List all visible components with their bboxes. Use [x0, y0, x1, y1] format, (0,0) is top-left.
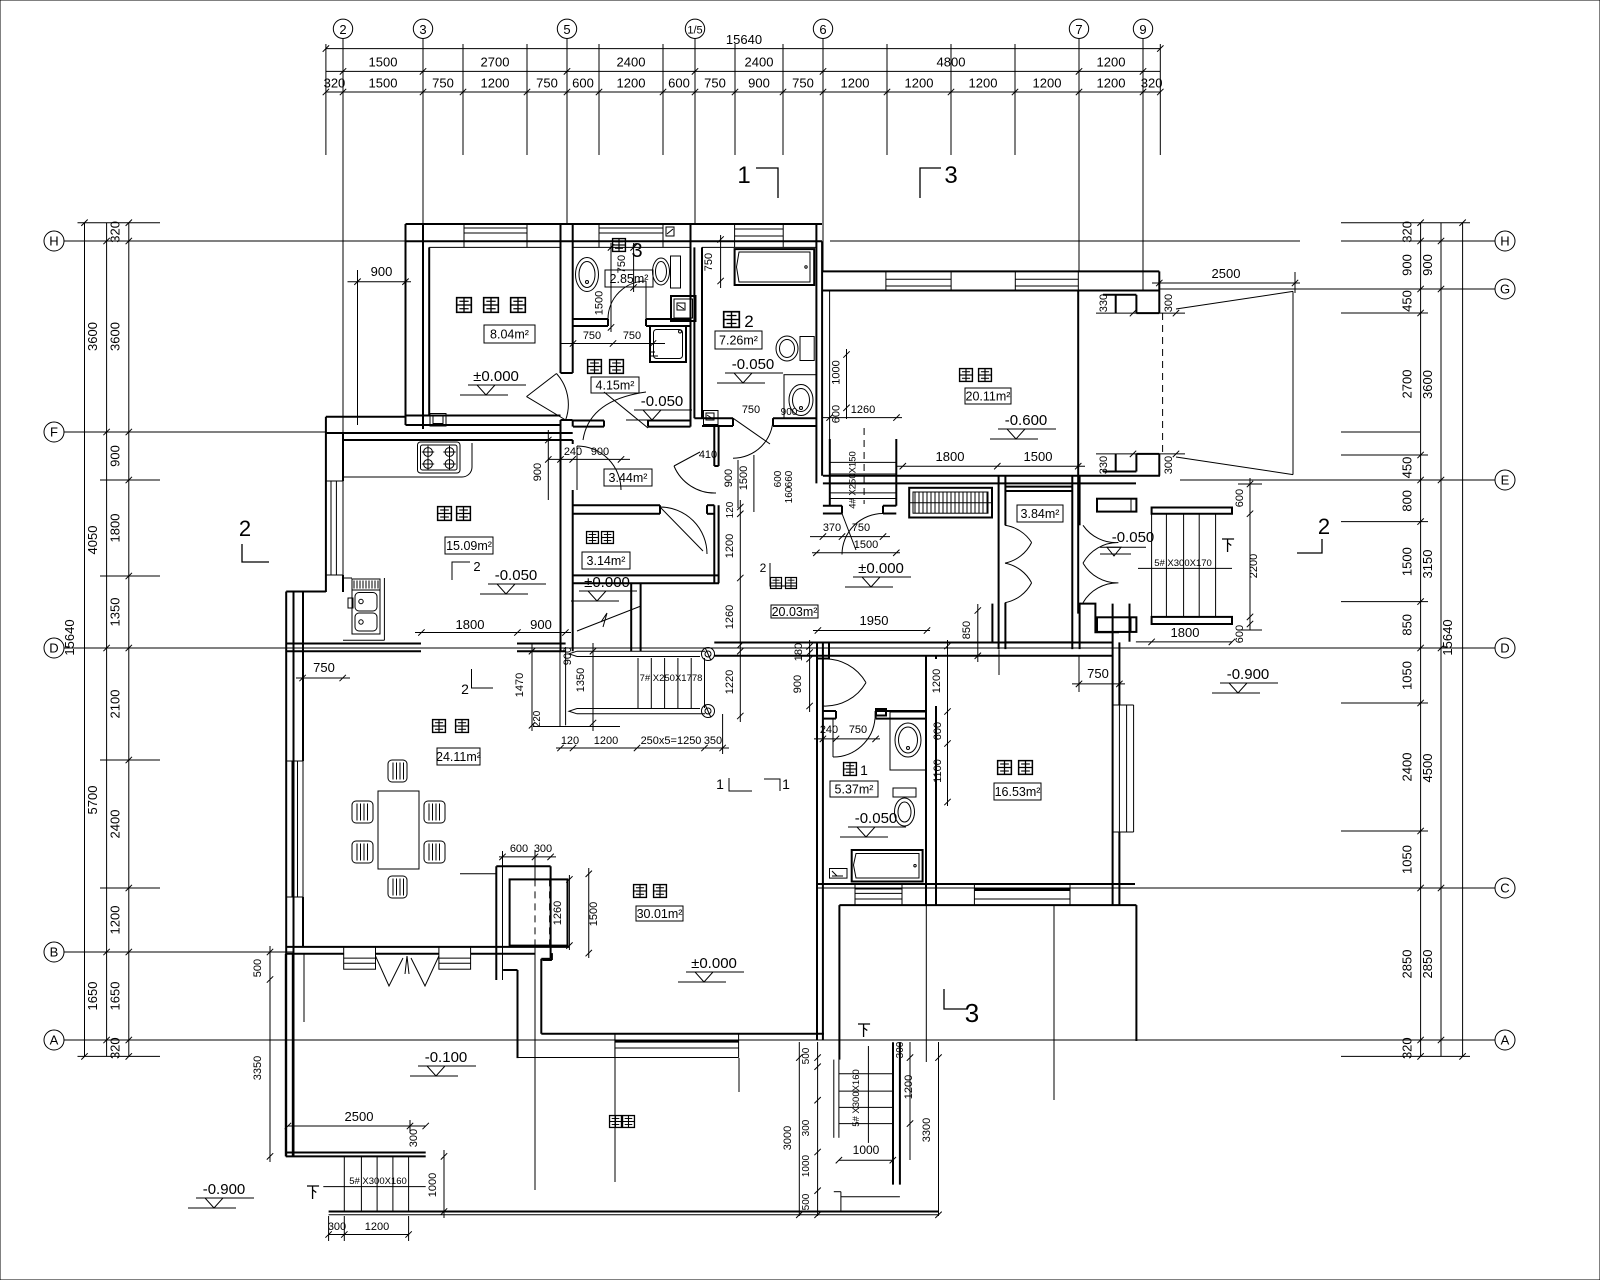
area label 15.09m&#178;	[445, 537, 493, 554]
svg-text:3300: 3300	[921, 1118, 933, 1142]
bath1 bathtub	[852, 850, 923, 882]
closet east wall	[1071, 476, 1073, 649]
svg-text:30.01m²: 30.01m²	[637, 907, 683, 921]
chair east 1	[424, 801, 445, 823]
bath1 north wall with door	[823, 710, 836, 712]
storage south wall	[573, 574, 719, 576]
svg-text:2850: 2850	[1400, 950, 1415, 979]
svg-text:3: 3	[631, 240, 642, 262]
svg-text:2700: 2700	[481, 55, 510, 70]
svg-text:300: 300	[328, 1221, 346, 1233]
dimension 500 3350 terrace west	[269, 946, 271, 1162]
bath2 west wall	[693, 247, 695, 418]
svg-text:1000: 1000	[801, 1154, 812, 1177]
svg-text:5# X300X160: 5# X300X160	[851, 1069, 862, 1127]
dimension 750 bedroom NE	[1072, 683, 1125, 685]
dimension chain major left	[106, 223, 108, 1057]
svg-text:H: H	[1500, 234, 1509, 249]
kitchen west wall outer	[325, 417, 327, 592]
dining table	[378, 791, 419, 869]
svg-text:300: 300	[801, 1119, 812, 1136]
SE steps side walls	[892, 1042, 894, 1184]
svg-text:B: B	[50, 945, 59, 960]
svg-text:3.44m²: 3.44m²	[609, 471, 648, 485]
svg-text:1200: 1200	[594, 735, 618, 747]
grid bubble axis A right	[1495, 1030, 1515, 1050]
room label bath2	[724, 312, 740, 328]
room label dining	[433, 720, 446, 733]
living east wall	[816, 905, 818, 1040]
svg-text:600: 600	[831, 405, 843, 423]
dimension 330 300 bottom	[1096, 453, 1185, 455]
window dining south 2	[439, 947, 471, 969]
closet north wall	[1005, 486, 1072, 488]
wall jog servant to kitchen	[326, 416, 406, 418]
svg-text:-0.050: -0.050	[495, 567, 538, 584]
svg-text:C: C	[1500, 881, 1509, 896]
down label terrace steps	[307, 1186, 319, 1199]
extension line mid terrace	[534, 1040, 536, 1190]
svg-text:7.26m²: 7.26m²	[719, 334, 758, 348]
room label kitchen	[438, 507, 452, 521]
dimension 900 servant top	[348, 281, 412, 283]
svg-text:600: 600	[1234, 625, 1246, 643]
svg-text:2700: 2700	[1400, 370, 1415, 399]
bath2 bathtub	[735, 249, 815, 285]
axis 7 vertical	[1078, 48, 1080, 271]
svg-text:F: F	[50, 425, 58, 440]
svg-text:750: 750	[742, 404, 760, 416]
svg-text:2: 2	[744, 312, 753, 331]
dimension 1950 foyer	[813, 630, 930, 632]
svg-text:240: 240	[820, 724, 838, 736]
svg-text:2500: 2500	[1212, 266, 1241, 281]
porch east edge	[1135, 905, 1137, 1041]
dimension chain SE right 300 1200 3300	[909, 1042, 911, 1160]
svg-text:900: 900	[562, 647, 574, 665]
svg-text:1000: 1000	[427, 1173, 439, 1197]
door housekeeping	[583, 392, 646, 440]
svg-text:1500: 1500	[1400, 547, 1415, 576]
dimension 1800 east stair	[1136, 641, 1232, 643]
svg-text:1200: 1200	[841, 76, 870, 91]
svg-text:1260: 1260	[724, 605, 736, 629]
svg-text:±0.000: ±0.000	[691, 955, 737, 972]
svg-text:450: 450	[1400, 457, 1415, 479]
living south window slider	[615, 1040, 739, 1043]
area label 4.15m&#178;	[591, 377, 639, 393]
svg-text:750: 750	[313, 660, 335, 675]
svg-text:2: 2	[473, 559, 480, 574]
garage west wall	[815, 224, 817, 483]
window garage north 2	[1015, 278, 1078, 280]
entry door	[842, 514, 883, 555]
svg-text:4# X250X150: 4# X250X150	[848, 451, 859, 509]
bath2 toilet	[800, 337, 814, 361]
dimension 1000 SE steps	[839, 1159, 893, 1161]
dimension 15640 overall top	[326, 48, 1160, 50]
svg-text:160: 160	[784, 486, 795, 503]
svg-text:E: E	[1501, 473, 1510, 488]
door storage	[660, 507, 707, 554]
area label 20.03m&#178;	[771, 605, 818, 618]
svg-text:1: 1	[716, 776, 724, 792]
svg-text:2400: 2400	[1400, 753, 1415, 782]
bath1 toilet	[893, 788, 916, 797]
svg-text:220: 220	[532, 710, 543, 727]
dimension chain foyer west 120 1200 1260 1220	[739, 500, 741, 722]
porch east wall stub top	[1097, 499, 1136, 512]
room label servant	[457, 298, 472, 313]
svg-text:2400: 2400	[108, 810, 123, 839]
svg-text:2: 2	[760, 561, 767, 575]
svg-text:8.04m²: 8.04m²	[490, 328, 529, 342]
extension lines right	[1341, 222, 1470, 224]
corridor east wall	[713, 427, 715, 466]
svg-text:2: 2	[239, 516, 251, 541]
svg-text:1650: 1650	[85, 982, 100, 1011]
dimension 1500 750 servant east	[610, 243, 612, 332]
dimension 15640 overall right	[1462, 223, 1464, 1057]
svg-text:600: 600	[668, 76, 690, 91]
porch east wall stub bottom	[1097, 617, 1136, 632]
svg-text:180: 180	[793, 643, 805, 661]
grid line H	[64, 240, 406, 242]
svg-text:1200: 1200	[903, 1075, 915, 1099]
dimension 750 bath2	[720, 235, 722, 288]
extension lines left	[78, 222, 161, 224]
terrace steps	[343, 1156, 345, 1211]
svg-text:15640: 15640	[726, 32, 762, 47]
bath1 basin counter	[890, 712, 926, 770]
chair west 1	[352, 801, 373, 823]
svg-text:450: 450	[1400, 290, 1415, 312]
D wall nook segment	[517, 643, 566, 645]
svg-text:±0.000: ±0.000	[473, 368, 519, 385]
area label 20.11m&#178;	[965, 388, 1011, 404]
dimension chain SE left 500 300 1000 500 3000	[798, 1042, 800, 1216]
garage north wall	[823, 270, 1159, 272]
dimension 850 closet	[977, 604, 979, 662]
closet double doors pointed	[1005, 525, 1032, 563]
grid line D	[64, 647, 1470, 649]
svg-text:1500: 1500	[854, 539, 878, 551]
svg-text:500: 500	[801, 1047, 812, 1064]
svg-text:2200: 2200	[1248, 554, 1260, 578]
svg-text:±0.000: ±0.000	[858, 560, 904, 577]
svg-text:1500: 1500	[594, 291, 606, 315]
svg-text:1200: 1200	[931, 669, 943, 693]
svg-text:1200: 1200	[617, 76, 646, 91]
bath3 south wall with door opening	[573, 318, 608, 320]
svg-text:120: 120	[561, 735, 579, 747]
SE steps center line	[867, 1046, 869, 1143]
svg-text:1220: 1220	[724, 670, 736, 694]
chair north	[388, 760, 407, 782]
svg-text:6: 6	[819, 22, 826, 37]
east stair bottom platform	[1152, 617, 1232, 624]
grid bubble axis C right	[1495, 878, 1515, 898]
window bedroom south	[974, 888, 1070, 891]
heater box servant room	[430, 414, 446, 427]
kitchen east wall	[560, 440, 562, 651]
promenade edge	[329, 1211, 939, 1213]
svg-text:1050: 1050	[1400, 845, 1415, 874]
window kitchen west	[330, 481, 332, 575]
svg-text:850: 850	[1400, 614, 1415, 636]
grid bubble axis B left	[44, 942, 64, 962]
svg-text:300: 300	[1163, 456, 1175, 474]
svg-text:350: 350	[704, 735, 722, 747]
stair well west wall	[630, 583, 632, 651]
svg-text:1200: 1200	[365, 1221, 389, 1233]
svg-text:660: 660	[784, 470, 795, 487]
svg-text:600: 600	[1234, 489, 1246, 507]
vent flag bath3 north	[666, 227, 674, 236]
dimension 300 1200 steps bottom	[329, 1234, 409, 1236]
hall door double arc	[823, 659, 866, 706]
washing machine housekeeping	[650, 326, 686, 362]
svg-text:5.37m²: 5.37m²	[835, 783, 874, 797]
storage east wall	[713, 505, 715, 583]
svg-text:-0.600: -0.600	[1005, 412, 1048, 429]
kitchen counter edge	[343, 443, 472, 477]
terrace west wall	[285, 954, 287, 1157]
svg-text:2: 2	[1318, 514, 1330, 539]
french door dining south	[376, 956, 439, 986]
grid bubble axis 5	[566, 39, 568, 49]
svg-text:15640: 15640	[1440, 619, 1455, 655]
extension line divider	[502, 851, 504, 980]
window servant room north	[464, 227, 527, 229]
svg-text:750: 750	[432, 76, 454, 91]
axis 3 vertical	[422, 48, 424, 224]
extension lines top	[325, 44, 327, 155]
svg-text:20.03m²: 20.03m²	[772, 605, 818, 619]
area label 3.14m&#178;	[582, 552, 630, 569]
bath3 basin	[576, 258, 599, 292]
room label bedroom	[998, 761, 1012, 775]
dimension 370 750 1500 entry	[810, 536, 890, 538]
dimension 1470 220 dining nook	[531, 643, 533, 731]
svg-text:900: 900	[781, 407, 798, 418]
closet south wall	[1005, 641, 1072, 643]
svg-text:750: 750	[1087, 666, 1109, 681]
basement stair break line dashed	[863, 428, 865, 504]
svg-text:900: 900	[723, 469, 735, 487]
area label 24.11m&#178;	[437, 748, 480, 765]
svg-text:1200: 1200	[1097, 55, 1126, 70]
svg-text:9: 9	[1139, 22, 1146, 37]
svg-text:1800: 1800	[936, 449, 965, 464]
east stair mid line	[1138, 567, 1232, 569]
D wall foyer south	[714, 642, 1112, 644]
svg-text:750: 750	[792, 76, 814, 91]
terrace south edge	[286, 1152, 426, 1154]
svg-text:750: 750	[849, 724, 867, 736]
dimension 2500 driveway	[1152, 282, 1300, 284]
svg-text:3600: 3600	[85, 322, 100, 351]
area label 5.37m&#178;	[830, 781, 878, 797]
svg-text:330: 330	[1098, 456, 1110, 474]
svg-text:900: 900	[371, 264, 393, 279]
wall jog kitchen-dining west	[286, 591, 326, 593]
chair west 2	[352, 841, 373, 863]
svg-text:600: 600	[572, 76, 594, 91]
SE steps treads	[839, 1073, 893, 1075]
east stair top platform	[1152, 508, 1232, 514]
hall west wall	[816, 643, 818, 906]
grid bubble axis 2	[342, 39, 344, 49]
svg-text:750: 750	[623, 330, 641, 342]
room label terrace	[610, 1116, 622, 1128]
svg-text:330: 330	[1098, 294, 1110, 312]
room label storage	[587, 532, 599, 544]
svg-text:2500: 2500	[345, 1109, 374, 1124]
svg-text:1000: 1000	[831, 360, 843, 384]
chair east 2	[424, 841, 445, 863]
svg-text:A: A	[50, 1033, 59, 1048]
grid bubble axis 9	[1142, 39, 1144, 49]
svg-text:5# X300X160: 5# X300X160	[349, 1176, 407, 1187]
bath1 floor drain	[830, 869, 848, 879]
svg-text:900: 900	[108, 445, 123, 467]
svg-text:250x5=1250: 250x5=1250	[641, 735, 702, 747]
axis 6 vertical	[822, 48, 824, 271]
svg-text:D: D	[49, 641, 58, 656]
grid bubble axis 3	[422, 39, 424, 49]
svg-text:900: 900	[530, 617, 552, 632]
dimension 1000 terrace steps	[443, 1150, 445, 1218]
svg-text:850: 850	[961, 621, 973, 639]
area label 3.84m&#178;	[1017, 505, 1063, 522]
garage-porch divider wall	[1077, 291, 1079, 614]
svg-text:300: 300	[895, 1041, 906, 1058]
porch south jog wall	[1080, 604, 1119, 633]
door bath3	[608, 281, 646, 319]
svg-text:1500: 1500	[369, 55, 398, 70]
grid line C	[817, 887, 1470, 889]
svg-text:16.53m²: 16.53m²	[995, 785, 1041, 799]
svg-text:3.84m²: 3.84m²	[1021, 507, 1060, 521]
garage door notch bottom	[1103, 471, 1136, 473]
garage east wall upper	[1158, 271, 1160, 313]
servant room south wall	[406, 415, 561, 417]
dimension 120 1200 250x5 350 stair bottom	[556, 747, 729, 749]
dimension 240 750 bath1 door	[814, 738, 880, 740]
entry steps grille	[909, 488, 992, 518]
foyer north wall	[823, 475, 1160, 477]
svg-text:320: 320	[108, 221, 123, 243]
dimension 600 300 divider	[499, 856, 556, 858]
svg-text:1200: 1200	[481, 76, 510, 91]
svg-text:20.11m²: 20.11m²	[966, 390, 1011, 404]
bath2 floor drain	[704, 411, 719, 425]
svg-text:-0.050: -0.050	[855, 810, 898, 827]
bath2 interior top face	[702, 246, 816, 248]
dining west wall	[285, 592, 287, 1157]
svg-text:1500: 1500	[588, 902, 600, 926]
svg-text:4500: 4500	[1420, 754, 1435, 783]
svg-text:1350: 1350	[575, 668, 587, 692]
svg-text:320: 320	[1141, 76, 1163, 91]
kitchen sink double bowl	[352, 579, 380, 634]
living south wall	[541, 1033, 824, 1035]
dimension row fine top	[326, 91, 1160, 93]
grid bubble axis G right	[1495, 279, 1515, 299]
svg-text:±0.000: ±0.000	[584, 574, 630, 591]
garage inner west face	[829, 291, 831, 467]
svg-text:1800: 1800	[108, 514, 123, 543]
bedroom west wall	[925, 656, 927, 905]
svg-text:3350: 3350	[252, 1056, 264, 1080]
svg-text:A: A	[1501, 1033, 1510, 1048]
axis 9 vertical	[1142, 48, 1144, 290]
svg-text:7: 7	[1075, 22, 1082, 37]
svg-text:1470: 1470	[514, 673, 526, 697]
svg-text:1/5: 1/5	[687, 25, 702, 37]
grid line G	[1160, 288, 1470, 290]
svg-text:G: G	[1500, 282, 1510, 297]
svg-text:410: 410	[699, 449, 717, 461]
svg-text:900: 900	[748, 76, 770, 91]
down label SE steps	[858, 1024, 870, 1037]
dimension row major top	[326, 70, 1160, 72]
dimension 1000 600 1260 garage west	[846, 349, 848, 419]
svg-text:2.85m²: 2.85m²	[610, 272, 649, 286]
svg-text:D: D	[1500, 641, 1509, 656]
east stair treads	[1151, 514, 1153, 617]
corridor-storage wall with door	[573, 504, 660, 506]
svg-text:2: 2	[339, 22, 346, 37]
svg-text:1200: 1200	[905, 76, 934, 91]
svg-text:320: 320	[108, 1037, 123, 1059]
bath1 basin	[895, 723, 921, 757]
svg-text:3: 3	[965, 998, 979, 1028]
room label housekeeping	[588, 360, 602, 374]
garage door leaf dashed	[1162, 313, 1164, 455]
svg-text:750: 750	[536, 76, 558, 91]
extension line bedroom NW	[998, 650, 1000, 676]
svg-text:3: 3	[944, 162, 957, 189]
living west jog wall	[517, 970, 519, 1058]
basement stair east wall	[895, 439, 897, 506]
svg-text:1260: 1260	[851, 404, 875, 416]
grid line A	[64, 1039, 1470, 1041]
svg-text:5: 5	[563, 22, 570, 37]
svg-text:3.14m²: 3.14m²	[587, 554, 626, 568]
D wall dining north	[286, 643, 421, 645]
room label garage	[960, 369, 973, 382]
svg-text:750: 750	[704, 76, 726, 91]
fireplace flue box	[510, 879, 568, 945]
svg-text:320: 320	[1400, 1037, 1415, 1059]
svg-text:3600: 3600	[108, 322, 123, 351]
svg-text:1000: 1000	[853, 1143, 880, 1157]
room label living	[634, 885, 647, 898]
svg-text:1: 1	[737, 162, 750, 189]
svg-text:320: 320	[324, 76, 346, 91]
south wall C bath1-bedroom	[817, 883, 1135, 885]
SE steps rail	[833, 1060, 835, 1138]
svg-text:1650: 1650	[108, 982, 123, 1011]
basement stair west wall	[829, 439, 831, 506]
porch west edge	[838, 905, 840, 1060]
svg-text:24.11m²: 24.11m²	[436, 750, 481, 764]
garage door notch top	[1103, 294, 1136, 296]
grid bubble axis D left	[44, 638, 64, 658]
svg-text:600: 600	[510, 843, 528, 855]
